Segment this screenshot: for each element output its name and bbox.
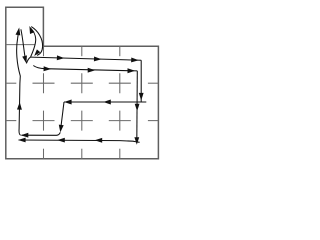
arrowhead: slant arriving row3, down: [59, 125, 64, 133]
tour: slanted descent from row2 to row3 at column 2: [61, 102, 65, 131]
grid tick top edge x1: [43, 46, 45, 56]
arrowhead: short run arriving cell (1,3), left: [21, 133, 29, 138]
grid tick left edge y2: [6, 120, 16, 122]
polygon boundary (grid region outline): [6, 7, 159, 159]
grid cross (1,1): [33, 73, 55, 93]
grid tick left edge y1: [6, 82, 16, 84]
grid tick top edge x2: [81, 46, 83, 56]
grid cross (3,2): [109, 111, 131, 131]
tour: bottom-row leftward run: [19, 140, 140, 142]
tour: U-turn descent D inside dead-end cell going back down: [21, 29, 26, 60]
grid cross (2,1): [71, 73, 93, 93]
interior grid line below dead-end cell: [6, 44, 36, 46]
grid tick right edge y1: [148, 82, 159, 84]
arrowhead: descent D arriving cell (1,1), down: [22, 55, 27, 63]
arrowhead: row-2 run cell3, left: [103, 100, 111, 105]
tour: second descent C bulging right out of dead-end cell: [31, 27, 42, 56]
arrowhead: ascent arriving dead-end cell, up: [16, 28, 21, 36]
arrowhead: upper run cell2, right: [57, 55, 65, 60]
grid tick right edge y2: [148, 120, 159, 122]
arrowhead: inner descent row2, down: [135, 104, 140, 112]
arrowhead: outer descent arriving row2, down: [139, 93, 144, 101]
tour: column-4 outer descent to row 2: [140, 60, 142, 101]
tour: left-column ascent from bottom-left up into dead-end cell: [17, 30, 21, 135]
arrowhead: row-1 lower run cell3, right: [88, 68, 96, 73]
arrowhead: ascent B arriving dead-end cell, up-left: [29, 26, 34, 34]
arrowhead: upper run cell3, right: [94, 57, 102, 62]
grid tick bottom edge x2: [81, 149, 83, 159]
grid cross (3,1): [109, 73, 131, 93]
arrowhead: bottom run arriving start cell, left: [18, 138, 26, 143]
grid cross (1,2): [33, 111, 55, 131]
arrowhead: descent C arriving cell (1,1), down-left: [34, 49, 40, 56]
arrowhead: row-1 lower run cell2, right: [44, 66, 52, 71]
tour: row-2 leftward run: [64, 101, 146, 103]
grid cross (2,2): [71, 111, 93, 131]
tour: turn from descent D into row-1 upper run: [26, 57, 30, 63]
tour: column-4 inner descent to bottom row: [136, 71, 139, 142]
tour: second ascent B back up into dead-end cell: [31, 28, 36, 57]
tour: row-1 upper rightward run: [31, 57, 142, 60]
arrowhead: upper run cell4, right: [131, 58, 139, 63]
grid tick top edge x3: [119, 46, 121, 56]
arrowhead: ascent mid (row2) pointing up: [17, 102, 22, 110]
grid tick bottom edge x3: [119, 149, 121, 159]
tour: short leftward run above bottom row to start cell: [22, 132, 61, 135]
arrowhead: bottom run cell3, left: [95, 138, 103, 143]
tour: hook from C into row-1 lower run: [33, 66, 137, 71]
arrowhead: bottom run cell2, left: [57, 138, 65, 143]
arrowhead: row-2 run arriving cell2, left: [64, 100, 72, 105]
arrowhead: inner descent arriving row3, down: [134, 137, 139, 145]
arrowhead: row-1 lower run cell4, right: [128, 68, 136, 73]
grid tick bottom edge x1: [43, 149, 45, 159]
